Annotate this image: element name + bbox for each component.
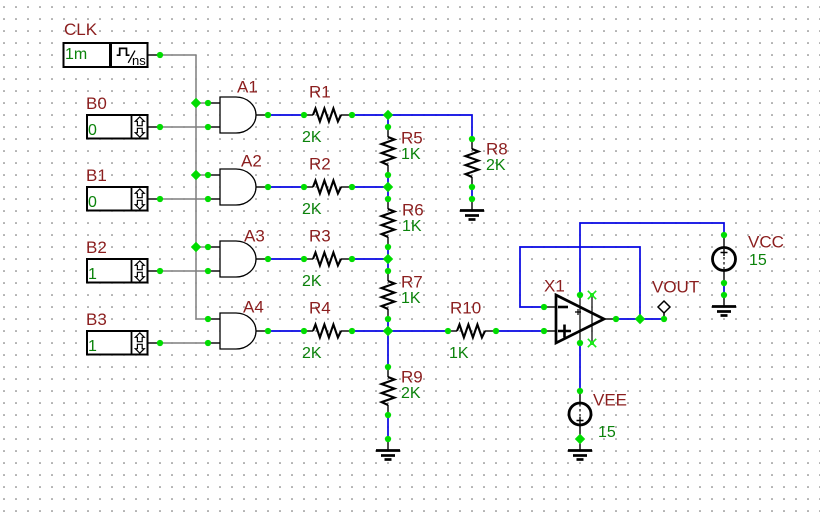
wire vertical clock bus [196,55,208,319]
wire B2 to A3 bottom input [160,270,208,272]
node R1 left [301,112,307,118]
svg-text:0: 0 [88,122,97,139]
resistor R5 [382,127,395,175]
node A2 out [265,184,271,190]
op-amp plus sign [558,325,571,338]
AND gate A3 [220,241,256,277]
junction output node [635,314,645,324]
pin stub VEE bottom [579,425,581,440]
svg-text:A3: A3 [244,227,265,246]
VEE plus marker [577,417,584,424]
ground VCC ground [712,295,736,316]
pin stub A1 output [256,114,268,116]
svg-text:ns: ns [132,53,146,68]
wire R9 to ground node [387,415,389,439]
svg-text:B1: B1 [86,166,107,185]
node R8 top [469,136,475,142]
node op-amp in- [541,304,547,310]
wire node1 to R5 [387,115,389,127]
op-amp NC pin bottom X mark [588,339,596,347]
svg-text:R8: R8 [486,140,508,159]
svg-text:15: 15 [749,252,767,269]
node op-amp vee pin [577,340,583,346]
pin stub A4 input A [208,318,220,320]
node B2 out [157,268,163,274]
svg-text:R2: R2 [309,155,331,174]
pin stub CLK output [148,54,161,56]
junction ladder node 4 [383,326,393,336]
spinner up arrow B1 [135,189,144,198]
VCC dashed polarity line [723,257,725,269]
svg-text:2K: 2K [401,385,421,402]
node A4 out [265,328,271,334]
wire VCC to ground segment [723,283,725,295]
wire R1 to ladder node and R8 branch [352,115,472,139]
node R2 right [349,184,355,190]
wire B3 to A4 bottom input [160,342,208,344]
pin stub A4 output [256,330,268,332]
node R8 gnd [469,196,475,202]
wire op-amp output to VOUT [616,318,664,320]
pin stub A3 input B [208,270,220,272]
pin stub op-amp output [604,318,616,320]
svg-text:A4: A4 [243,298,264,317]
wire node3 to R7 [387,259,389,271]
node A2 in bot [205,196,211,202]
node R9 bottom [385,412,391,418]
spinner down arrow B1 [135,200,144,209]
ground R8 ground [460,199,484,220]
svg-text:CLK: CLK [64,20,98,39]
wire feedback loop [520,247,640,319]
node R2 left [301,184,307,190]
resistor R4 [304,325,352,338]
pin stub A2 input B [208,198,220,200]
junction ladder node 3 [383,254,393,264]
node B3 out [157,340,163,346]
op-amp minus sign [558,306,568,309]
VOUT pin diamond [658,301,670,313]
VCC plus marker [721,249,728,256]
svg-text:VEE: VEE [593,391,627,410]
resistor R10 [448,325,496,338]
resistor R8 [466,139,479,187]
digital source B3 box [87,331,148,355]
node op-amp vcc pin [577,292,583,298]
pin stub VOUT [663,313,665,319]
VEE dashed polarity line [579,404,581,417]
node B1 out [157,196,163,202]
wire R2 to ladder node [352,186,388,188]
svg-text:1: 1 [88,266,97,283]
wire A1 output to R1 [268,114,304,116]
node A4 in top [205,316,211,322]
svg-text:R3: R3 [309,227,331,246]
svg-text:B3: B3 [86,310,107,329]
node op-amp in+ [541,328,547,334]
pin stub op-amp non-inverting input [544,330,556,332]
node R7 bottom [385,316,391,322]
spinner down arrow B0 [135,128,144,137]
wire R7 to node4 [387,319,389,331]
svg-text:B0: B0 [86,94,107,113]
svg-text:1K: 1K [449,345,469,362]
resistor R3 [304,253,352,266]
resistor R9 [382,367,395,415]
spinner down arrow B2 [135,272,144,281]
digital source B0 box [87,115,148,139]
node R3 left [301,256,307,262]
wire VCC supply line [580,223,724,295]
pin stub A3 input A [208,246,220,248]
ground VEE ground [568,439,592,460]
pin stub A1 input B [208,126,220,128]
pin stub B2 output [148,270,161,272]
wire R10 to op-amp plus input [496,330,544,332]
resistor R7 [382,271,395,319]
node R3 right [349,256,355,262]
resistor R1 [304,109,352,122]
node B0 out [157,124,163,130]
node R9 gnd [385,436,391,442]
spinner up arrow B3 [135,333,144,342]
wire bus to A1 top input [196,102,208,104]
svg-text:VOUT: VOUT [652,278,699,297]
node R10 right [493,328,499,334]
pin stub op-amp inverting input [544,306,556,308]
junction VEE ground node [575,434,585,444]
svg-text:15: 15 [598,424,616,441]
svg-text:R5: R5 [401,128,423,147]
node R5 bottom [385,172,391,178]
node VOUT node [661,316,667,322]
clock pulse glyph [117,48,130,55]
pin stub VCC top [723,235,725,248]
svg-text:R1: R1 [309,83,331,102]
wire B1 to A2 bottom input [160,198,208,200]
node R1 right [349,112,355,118]
svg-text:R10: R10 [450,299,481,318]
op-amp unconnected pin line [591,296,593,342]
svg-text:VCC: VCC [748,233,784,252]
svg-text:1: 1 [88,338,97,355]
node A3 out [265,256,271,262]
pin stub A1 input A [208,102,220,104]
pin stub B3 output [148,342,161,344]
pin stub VEE top [579,391,581,404]
digital source B2 box [87,259,148,283]
junction bus-A2 [191,170,201,180]
node R4 left [301,328,307,334]
wire node2 to R6 [387,187,389,199]
wire A4 output to R4 [268,330,304,332]
pin stub B1 output [148,198,161,200]
pin stub A2 input A [208,174,220,176]
AND gate A4 [220,313,256,349]
svg-text:B2: B2 [86,238,107,257]
voltage source VEE circle [569,403,591,425]
svg-text:2K: 2K [302,345,322,362]
wire CLK to bus [160,54,196,56]
pin stub A3 output [256,258,268,260]
node A1 out [265,112,271,118]
pin stub A2 output [256,186,268,188]
node CLK out [157,52,163,58]
node R7 top [385,268,391,274]
wire R5 to node2 [387,175,389,187]
wire A2 output to R2 [268,186,304,188]
junction ladder node 2 [383,182,393,192]
clock slash [128,51,135,63]
node R6 bottom [385,244,391,250]
ground R9 ground [376,439,400,460]
resistor R2 [304,181,352,194]
clock source CLK box [64,43,148,67]
resistor R6 [382,199,395,247]
wire R4 to R10 [352,330,448,332]
node A4 in bot [205,340,211,346]
op-amp NC pin top X mark [588,291,596,299]
digital source B1 box [87,187,148,211]
node VCC gnd [721,292,727,298]
svg-text:R4: R4 [309,299,331,318]
pin stub B0 output [148,126,161,128]
node R5 top [385,124,391,130]
junction bus-A3 [191,242,201,252]
svg-text:R7: R7 [401,272,423,291]
svg-text:A1: A1 [237,78,258,97]
node A2 in top [205,172,211,178]
AND gate A2 [220,169,256,205]
node R6 top [385,196,391,202]
node A1 in top [205,100,211,106]
pin stub VCC bottom [723,271,725,284]
svg-text:2K: 2K [486,157,506,174]
wire bus to A2 top input [196,174,208,176]
node A3 in top [205,244,211,250]
wire op-amp to VEE [579,343,581,391]
svg-text:0: 0 [88,194,97,211]
svg-text:1m: 1m [65,46,87,63]
voltage source VCC circle [713,248,736,271]
wire R6 to node3 [387,247,389,259]
svg-text:A2: A2 [241,152,262,171]
svg-text:2K: 2K [302,273,322,290]
svg-text:R9: R9 [401,368,423,387]
wire R8 to ground node [471,187,473,199]
wire bus to A3 top input [196,246,208,248]
node VEE top [577,388,583,394]
node A3 in bot [205,268,211,274]
svg-text:1K: 1K [401,290,421,307]
AND gate A1 [220,97,256,133]
op-amp U X1 triangle [556,295,604,343]
node VCC bottom [721,280,727,286]
junction ladder node 1 [383,110,393,120]
node A1 in bot [205,124,211,130]
svg-text:2K: 2K [302,201,322,218]
junction bus-A1 [191,98,201,108]
node R10 left [445,328,451,334]
node R8 bottom [469,184,475,190]
spinner up arrow B0 [135,117,144,126]
svg-text:X1: X1 [544,277,565,296]
svg-text:2K: 2K [302,129,322,146]
node VCC top [721,232,727,238]
wire node4 to R9 [387,331,389,367]
spinner down arrow B3 [135,344,144,353]
svg-text:R6: R6 [402,200,424,219]
node R9 top [385,364,391,370]
node op-amp out [613,316,619,322]
op-amp power pin plus marker [575,309,581,315]
svg-text:1K: 1K [401,146,421,163]
node R4 right [349,328,355,334]
svg-text:1K: 1K [402,218,422,235]
op-amp power pin line VCC [579,296,581,342]
wire A3 output to R3 [268,258,304,260]
pin stub A4 input B [208,342,220,344]
spinner up arrow B2 [135,261,144,270]
wire B0 to A1 bottom input [160,126,208,128]
wire R3 to ladder node [352,258,388,260]
